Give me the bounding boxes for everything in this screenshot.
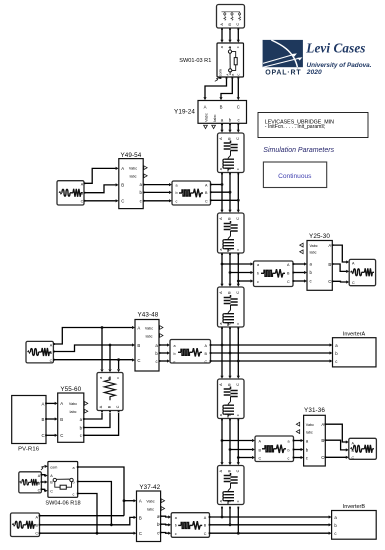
svg-text:b: b (257, 271, 259, 275)
svg-text:b: b (227, 249, 231, 251)
wire bottom row a to InverterB (210, 516, 330, 518)
wire row a LB3 to InverterA (211, 344, 331, 346)
svg-text:C: C (38, 489, 41, 493)
svg-text:- InitFcn. . . . . Init_params: - InitFcn. . . . . Init_params; (265, 124, 326, 130)
svg-text:2020: 2020 (306, 69, 322, 76)
wire load B to Y49-54 B (85, 185, 116, 193)
svg-text:c: c (236, 168, 240, 170)
svg-text:C: C (60, 433, 63, 438)
wire LB5 a to Y31-36 (294, 440, 302, 442)
svg-text:A: A (139, 499, 142, 504)
svg-text:A: A (60, 401, 63, 406)
wire Y49-54 b to line block (144, 191, 169, 193)
svg-text:C: C (50, 489, 53, 493)
svg-text:Vabc: Vabc (129, 166, 137, 170)
PI section line block 4 (218, 376, 245, 421)
wire bus A to LB2 (222, 263, 251, 265)
block PV-R16 (12, 396, 47, 444)
svg-text:SW01-03 R1: SW01-03 R1 (179, 58, 211, 64)
svg-text:c: c (174, 360, 176, 364)
svg-text:University of Padova.: University of Padova. (307, 62, 372, 69)
svg-text:C: C (259, 457, 262, 461)
block InverterA (330, 338, 377, 367)
wire source A to breaker (221, 29, 223, 40)
spine wire phase C PI4-PI5 (237, 420, 239, 464)
wire tap to Y37-42 A (124, 500, 134, 502)
svg-text:A: A (137, 325, 140, 330)
spine wire phase B PI2-PI3 (229, 254, 231, 284)
svg-text:b: b (174, 352, 176, 356)
svg-text:Y37-42: Y37-42 (139, 484, 160, 491)
wire source B to breaker (229, 29, 231, 40)
svg-text:Y49-54: Y49-54 (120, 152, 141, 159)
line block LB2 (251, 261, 295, 287)
wire load C to Y43-48 C (54, 359, 132, 361)
junction shunt load C (117, 358, 120, 361)
wire row c LB3 to InverterA (211, 360, 331, 362)
svg-text:Vabc: Vabc (145, 326, 153, 330)
wire PV B to Y55-60 (46, 418, 55, 420)
svg-text:c: c (257, 280, 259, 284)
load block R19 (11, 513, 41, 537)
wire load B to Y43-48 B (54, 345, 132, 352)
svg-text:Y25-30: Y25-30 (309, 233, 330, 240)
svg-text:C: C (236, 383, 240, 386)
line block LB4 (168, 513, 210, 538)
wire load C to SW04 (41, 489, 45, 490)
block InverterB (329, 511, 377, 540)
svg-text:Vabc: Vabc (69, 402, 77, 406)
wire load B to SW04 (41, 481, 45, 483)
PI section line block 3 (218, 284, 245, 329)
svg-text:c: c (236, 323, 240, 325)
measurement block Y49-54 (116, 159, 148, 209)
wire LB5 b to Y31-36 (294, 449, 302, 451)
wire load C to Y49-54 C (85, 200, 116, 202)
junction bus C (237, 199, 240, 202)
svg-text:C: C (287, 280, 290, 284)
wire bus C to LB2 (238, 280, 251, 282)
svg-text:C: C (321, 455, 324, 460)
svg-text:C: C (137, 358, 140, 363)
junction bus C to east feeder (237, 280, 240, 283)
wire bus B to LB5 (230, 449, 252, 451)
junction bus A (221, 183, 224, 186)
svg-text:com: com (50, 465, 57, 469)
svg-text:InverterA: InverterA (343, 332, 366, 338)
svg-text:C: C (237, 104, 240, 109)
svg-text:Iabc: Iabc (146, 334, 153, 338)
annotation box LEVICASES_UBRIDGE_MIN (258, 113, 368, 138)
svg-text:C: C (352, 456, 355, 460)
junction bottom bus C (237, 532, 240, 535)
svg-text:C: C (236, 137, 240, 140)
wire breaker B to Y19-24 (221, 79, 232, 98)
breaker SW01-03 R1 (217, 40, 244, 79)
junction C row (96, 532, 99, 535)
wire Y31-36 C to load R13 (325, 456, 346, 458)
powergui block Continuous (263, 162, 326, 188)
junction shunt load B (109, 344, 112, 347)
spine wire phase B PI1-PI2 (229, 174, 231, 211)
svg-text:b: b (288, 448, 290, 452)
svg-text:c: c (236, 414, 240, 416)
svg-text:A: A (121, 166, 124, 171)
spine wire phase A PI2-PI3 (221, 254, 223, 284)
svg-text:A: A (328, 243, 331, 248)
svg-text:B: B (220, 104, 223, 109)
spine wire phase B PI4-PI5 (229, 420, 231, 464)
wire LB2 A to Y25-30 a (293, 263, 304, 265)
svg-text:C: C (237, 74, 241, 76)
wire Y55-60 c up to RL branch C (84, 413, 119, 435)
load block R17 (19, 472, 43, 493)
svg-text:C: C (121, 198, 124, 203)
wire Y25-30 C to load R5 (333, 280, 347, 283)
wire Y43-48 b to LB3 (159, 352, 167, 354)
svg-text:Y43-48: Y43-48 (137, 312, 158, 319)
junction bottom bus B (229, 523, 232, 526)
load block R2 (57, 181, 85, 205)
svg-text:b: b (175, 524, 177, 528)
svg-text:C: C (352, 281, 355, 285)
wire shunt A down to RL branch (101, 328, 103, 370)
wire LB5 c to Y31-36 (294, 457, 302, 459)
com dangling arrow glyph SW04 (41, 466, 45, 470)
line block LB3 (167, 340, 211, 364)
wire Y31-36 A to load R13 (325, 424, 346, 442)
wire Y25-30 A to load R5 (333, 245, 347, 262)
svg-text:c: c (236, 500, 240, 502)
svg-text:Iabc: Iabc (130, 175, 137, 179)
svg-text:Continuous: Continuous (278, 173, 312, 180)
svg-text:C: C (328, 279, 331, 284)
svg-text:Vabc: Vabc (146, 500, 154, 504)
wire Y37-42 b to LB4 (161, 523, 169, 526)
load block R9 (26, 341, 55, 363)
wire Y43-48 c to LB3 (159, 360, 167, 362)
wire breaker C to Y19-24 (237, 79, 239, 98)
wire bottom row c to InverterB (210, 532, 330, 534)
load block R13 (346, 438, 377, 460)
measurement block Y25-30 (300, 241, 334, 291)
svg-text:Y31-36: Y31-36 (304, 407, 325, 414)
wire Y19-24 b to PI line 1 (229, 124, 231, 130)
com dangling arrow glyph (215, 78, 221, 82)
wire load A to Y49-54 A (85, 168, 116, 183)
wire LB1 A to bus (211, 184, 222, 186)
wire bus C to LB5 (238, 457, 252, 459)
svg-text:B: B (321, 438, 324, 443)
svg-text:C: C (42, 433, 45, 438)
svg-text:c: c (176, 200, 178, 204)
junction bus B InverterA row (229, 352, 232, 355)
svg-text:b: b (227, 323, 231, 325)
junction bus A to east feeder (221, 263, 224, 266)
svg-text:com: com (219, 69, 223, 76)
spine wire phase A PI1-PI2 (221, 174, 223, 211)
wire Y19-24 c to PI line 1 (237, 124, 239, 130)
svg-text:Iabc: Iabc (212, 114, 217, 122)
wire SW04 b down (78, 482, 112, 525)
svg-text:C: C (50, 359, 53, 363)
svg-text:c: c (236, 46, 240, 48)
svg-text:B: B (328, 262, 331, 267)
wire source C to breaker (237, 29, 239, 40)
svg-text:c: c (236, 249, 240, 251)
measurement block Y31-36 (296, 415, 326, 466)
wire Y55-60 a up to RL branch A (84, 413, 102, 419)
spine wire phase C PI1-PI2 (237, 174, 239, 211)
junction B row (110, 523, 113, 526)
svg-text:Vabc: Vabc (310, 244, 318, 248)
wire Y25-30 B to load R5 (333, 264, 347, 271)
svg-text:Iabc: Iabc (70, 410, 77, 414)
svg-text:InverterB: InverterB (343, 504, 366, 510)
wire Y43-48 a to LB3 (159, 344, 167, 346)
svg-text:b: b (73, 481, 75, 485)
breaker SW04-06 R18 (45, 462, 79, 498)
svg-text:B: B (231, 74, 235, 76)
junction shunt load A (101, 326, 104, 329)
svg-text:A: A (42, 401, 45, 406)
measurement block Y37-42 (134, 491, 165, 542)
wire load R19 B row to Y37-42 B (40, 517, 134, 524)
junction bottom bus A (221, 516, 224, 519)
svg-text:C: C (205, 200, 208, 204)
svg-text:C: C (116, 405, 120, 408)
spine wire phase A PI3-PI4 (221, 328, 223, 376)
svg-text:Iabc: Iabc (306, 431, 313, 435)
wire Y49-54 c to line block (144, 200, 169, 202)
junction bus C InverterA row (237, 360, 240, 363)
wire SW04 c down (78, 494, 97, 534)
junction bus A Y31 row (221, 439, 224, 442)
wire Y19-24 a to PI line 1 (221, 124, 223, 130)
svg-text:C: C (81, 200, 84, 204)
svg-text:OPAL·RT: OPAL·RT (265, 69, 301, 76)
line block LB1 (169, 181, 212, 205)
wire row b LB3 to InverterA (211, 352, 331, 354)
svg-text:b: b (227, 168, 231, 170)
svg-text:C: C (139, 531, 142, 536)
junction Y37 A tap (123, 499, 126, 502)
spine wire phase B PI5 to bottom bus (229, 508, 231, 525)
spine wire phase C PI2-PI3 (237, 254, 239, 284)
svg-text:B: B (139, 515, 142, 520)
svg-text:B: B (121, 183, 124, 188)
svg-text:Vabc: Vabc (204, 113, 209, 122)
spine wire phase A PI4-PI5 (221, 420, 223, 464)
wire LB2 C to Y25-30 c (293, 280, 304, 282)
wire breaker A to Y19-24 (205, 79, 227, 98)
svg-text:C: C (236, 291, 240, 294)
RL branch block vertical (97, 369, 123, 412)
line block LB5 (252, 436, 294, 462)
wire shunt C down to RL branch (118, 360, 120, 369)
wire PV C to Y55-60 (46, 434, 55, 436)
svg-text:B: B (42, 417, 45, 422)
wire Y37-42 c to LB4 (161, 532, 169, 535)
wire Y55-60 b up to RL branch B (84, 413, 110, 428)
junction bus A InverterA row (221, 344, 224, 347)
svg-text:B: B (60, 417, 63, 422)
wire bus A to LB5 (222, 440, 252, 442)
load block R5 (346, 259, 375, 285)
wire Y49-54 a to line block (144, 184, 169, 186)
spine wire phase A PI5 to bottom bus (221, 508, 223, 517)
svg-text:c: c (73, 493, 75, 497)
wire load R19 A row (40, 515, 125, 517)
svg-text:C: C (236, 23, 240, 26)
wire PV A to Y55-60 (46, 402, 55, 404)
PI section line block 1 (218, 130, 245, 175)
spine wire phase C PI3-PI4 (237, 328, 239, 376)
svg-text:c: c (175, 532, 177, 536)
wire SW04 a down to Y37-42 A (78, 467, 124, 516)
svg-text:b: b (176, 191, 178, 195)
wire Y37-42 a to LB4 (161, 515, 169, 518)
svg-text:A: A (225, 74, 229, 76)
measurement block Y19-24 (198, 97, 247, 128)
svg-text:A: A (321, 422, 324, 427)
svg-text:Vabc: Vabc (306, 423, 314, 427)
wire LB1 C to bus (211, 199, 239, 201)
measurement block Y43-48 (132, 320, 163, 372)
wire LB1 B to bus (211, 191, 230, 193)
svg-text:SW04-06 R18: SW04-06 R18 (45, 501, 80, 507)
junction bus B to east feeder (229, 271, 232, 274)
PI section line block 2 (218, 210, 245, 255)
OPAL-RT logo square (263, 40, 303, 74)
svg-text:b: b (227, 414, 231, 416)
svg-text:C: C (35, 532, 38, 536)
svg-text:Iabc: Iabc (147, 508, 154, 512)
svg-text:C: C (204, 532, 207, 536)
svg-text:Levi Cases: Levi Cases (305, 40, 365, 55)
svg-text:B: B (137, 343, 140, 348)
spine wire phase B PI3-PI4 (229, 328, 231, 376)
wire bottom row b to InverterB (210, 524, 330, 526)
junction bus C Y31 row (237, 456, 240, 459)
wire load A to SW04 (41, 474, 45, 477)
svg-text:c: c (288, 457, 290, 461)
svg-text:Y19-24: Y19-24 (174, 109, 195, 116)
junction bus B (229, 191, 232, 194)
svg-text:Y55-60: Y55-60 (60, 386, 81, 393)
svg-text:C: C (205, 360, 208, 364)
svg-text:C: C (236, 217, 240, 220)
measurement block Y55-60 (55, 393, 88, 442)
wire bus B to LB2 (230, 272, 251, 274)
three-phase source block (217, 5, 245, 30)
wire shunt B down to RL branch (109, 345, 111, 369)
PI section line block 5 (218, 462, 245, 508)
svg-text:Simulation Parameters: Simulation Parameters (263, 147, 334, 154)
wire Y31-36 B to load R13 (325, 440, 346, 450)
svg-text:PV-R16: PV-R16 (18, 447, 39, 453)
wire load A to Y43-48 A (54, 328, 132, 345)
svg-text:A: A (204, 104, 207, 109)
wire LB2 B to Y25-30 b (293, 272, 304, 274)
svg-text:c: c (116, 377, 120, 379)
junction bus B Y31 row (229, 448, 232, 451)
svg-text:Iabc: Iabc (310, 251, 317, 255)
svg-text:C: C (236, 469, 240, 472)
wire load R19 C row to Y37-42 C (40, 532, 134, 534)
svg-text:b: b (227, 500, 231, 502)
spine wire phase C PI5 to bottom bus (237, 508, 239, 534)
